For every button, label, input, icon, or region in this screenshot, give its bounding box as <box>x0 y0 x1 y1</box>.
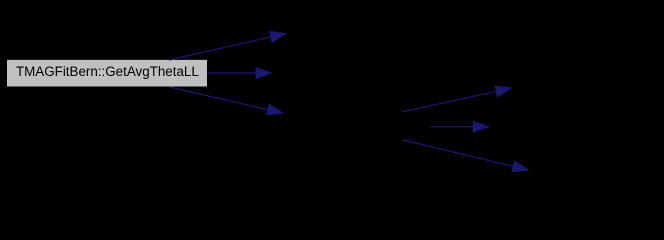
svg-text:TMAGFitBern::GetAvgThetaLL: TMAGFitBern::GetAvgThetaLL <box>16 64 199 79</box>
edge main->A <box>169 32 286 60</box>
edge C->F <box>403 140 528 172</box>
edge C->D <box>402 86 512 112</box>
edge main->B <box>207 68 272 79</box>
node main: TMAGFitBern::GetAvgThetaLL <box>7 60 207 87</box>
edge main->C <box>169 87 283 115</box>
edge C->E <box>431 121 489 132</box>
